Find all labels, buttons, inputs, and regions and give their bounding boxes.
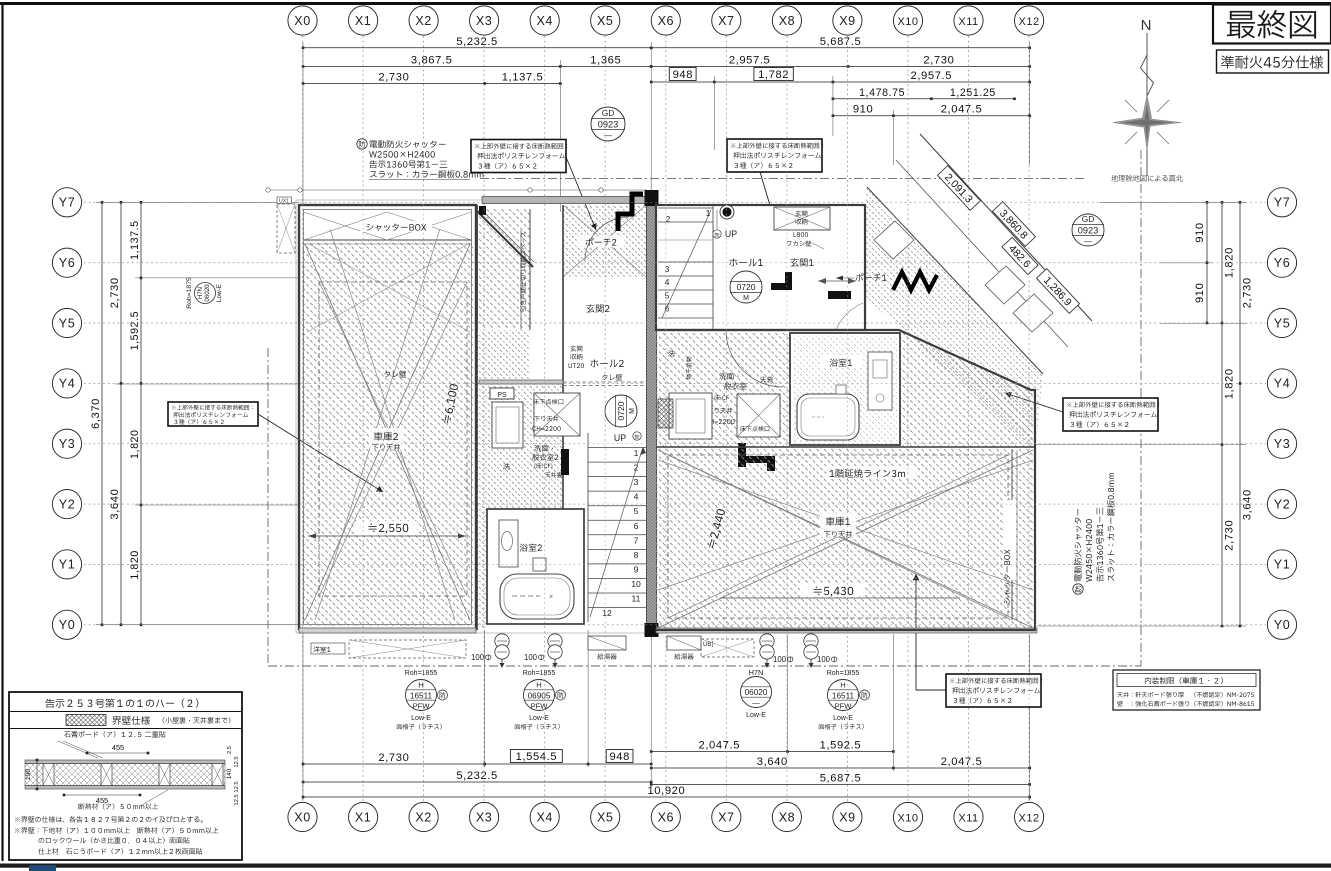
svg-text:M: M [743,295,749,302]
shower bath1 [836,385,846,394]
closet strip hatched [477,209,530,329]
svg-text:2,730: 2,730 [109,277,121,308]
section dim 455 bottom [64,794,140,796]
wet zone top wall [479,380,563,384]
left garage inner dim ≒2,550 [308,535,466,537]
svg-text:455: 455 [96,796,108,805]
diagonal steps squares [874,221,1053,332]
svg-text:2,730: 2,730 [1242,277,1254,308]
bathtub 1 [797,394,859,440]
insulation note box C left [168,402,258,426]
svg-text:2,047.5: 2,047.5 [941,756,983,768]
interior restriction table 内装制限 [1113,670,1260,710]
svg-text:948: 948 [609,751,629,763]
hall1 label [729,258,763,266]
left garage dim ≒6,100 rotated [442,383,460,424]
svg-text:X7: X7 [718,810,734,824]
svg-text:0923: 0923 [598,120,618,130]
vertical grid lines dashed [303,36,1030,801]
insulation note box A top-left [471,140,566,173]
svg-text:GD: GD [1082,214,1095,224]
svg-text:X0: X0 [294,810,310,824]
bottom dim row 2,730 / 1,554.5 / 948 [303,763,651,765]
page frame left border [1,2,3,861]
right dimension col 910/910 [1206,202,1208,323]
washer box with X right unit [737,394,780,437]
black bar hall2 side [561,449,569,475]
svg-text:X5: X5 [597,810,613,824]
top dimension row 3,867.5 / 1,365 [303,65,651,67]
svg-text:Y3: Y3 [59,437,75,451]
svg-text:Y2: Y2 [1274,497,1290,511]
svg-text:N: N [1141,17,1152,34]
svg-text:910: 910 [1194,283,1206,303]
bath1 counter [868,352,892,410]
stair landing edge [658,239,713,241]
Y grid bubbles right [1267,610,1296,639]
svg-text:1,820: 1,820 [1224,247,1236,278]
top dimension row 2,730 / 1,137.5 [303,83,560,85]
svg-text:H: H [418,680,423,689]
horizontal grid lines dashed [84,202,1266,625]
svg-text:X9: X9 [839,14,855,28]
svg-text:06020: 06020 [204,284,211,302]
svg-text:5: 5 [634,506,639,516]
svg-text:X2: X2 [415,14,431,28]
fire shutter note top-left [357,139,367,149]
svg-text:1,478.75: 1,478.75 [859,87,905,99]
svg-text:2,047.5: 2,047.5 [941,104,983,116]
fire shutter note right rotated [1073,473,1115,594]
left garage steep brace X [315,229,440,620]
svg-text:H7N: H7N [749,668,764,677]
left garage big X diagonals [305,244,470,620]
svg-text:2,730: 2,730 [378,72,409,84]
svg-text:2,730: 2,730 [378,752,409,764]
X grid bubbles top [288,6,317,35]
X grid bubbles bottom [288,802,317,831]
left garage labels [370,428,403,450]
svg-text:1,137.5: 1,137.5 [129,220,141,260]
svg-text:—: — [1084,237,1092,246]
right staircase treads [658,207,713,209]
svg-text:PS: PS [497,392,507,399]
washer box left unit [492,402,523,448]
svg-text:Y5: Y5 [59,316,75,330]
svg-text:3,867.5: 3,867.5 [411,54,453,66]
left unit 車庫2 hatched floor [302,241,473,626]
bottom-left blue square [29,865,56,871]
top dimension row 948 / 1,782 / 2,957.5 boxed [651,81,1029,83]
window bubble left rotated Roh=1875 [186,277,223,309]
svg-text:11: 11 [632,594,641,604]
stair diagonal [590,447,643,617]
entry1 label 玄関1 [790,258,813,266]
svg-text:10: 10 [631,579,641,589]
svg-text:3,640: 3,640 [757,756,788,768]
svg-text:×: × [549,594,553,601]
svg-text:X9: X9 [839,810,855,824]
svg-text:Y3: Y3 [1274,437,1290,451]
svg-text:6,370: 6,370 [90,398,102,429]
svg-text:16511: 16511 [832,691,855,700]
hall2 label ホール2 [590,359,623,367]
left wet zone hatched [477,382,563,509]
left dimension col 2,730 / 3,640 [120,202,122,625]
right garage inner dashed rect [668,455,1008,618]
PS box [490,388,514,399]
closet rotated label [520,232,526,311]
svg-text:Y6: Y6 [1274,256,1290,270]
bottom dim row 2,047.5 / 1,592.5 [651,751,893,753]
washbasin right unit [669,393,712,439]
bathtub 2 [500,574,574,619]
svg-text:Low-E: Low-E [411,715,431,722]
svg-text:0720: 0720 [616,401,626,420]
bottom dim row 3,640 / 2,047.5 [651,767,1029,769]
Y grid bubbles left [52,610,81,639]
title box 最終図 [1213,5,1331,44]
svg-text:1,820: 1,820 [129,429,141,459]
svg-text:UP: UP [614,433,626,443]
left unit outer wall [299,205,476,629]
section studs [43,764,54,786]
svg-text:1,554.5: 1,554.5 [516,751,558,763]
svg-text:9: 9 [634,564,639,574]
UX1 dashed box outside left [277,197,292,204]
black zigzag stair section cut [893,272,937,290]
svg-text:X1: X1 [355,14,371,28]
black L wall right of party wall top of garage [738,443,746,467]
right garage shallow brace X [658,460,1033,590]
svg-text:100: 100 [471,653,485,662]
closet strip walls [476,205,478,630]
svg-text:1,592.5: 1,592.5 [129,311,141,351]
right unit lower outline [656,330,1035,630]
drain circles 100φ pair 1 [495,634,509,648]
grid lines overlay [84,36,1266,801]
left garage inner dashed rect [319,282,467,596]
玄関収納 UT20 labels left unit [570,346,582,352]
bottom wall band right unit [656,628,1037,633]
detail box hatch swatch [66,715,106,726]
party wall black caps [645,190,659,206]
svg-text:X0: X0 [294,14,310,28]
svg-text:Y5: Y5 [1274,316,1290,330]
svg-text:Y0: Y0 [1274,618,1290,632]
right stair diagonal [662,210,711,318]
svg-text:X6: X6 [658,810,674,824]
svg-text:X2: X2 [415,810,431,824]
svg-text:X11: X11 [958,812,978,824]
svg-text:1: 1 [706,209,711,218]
svg-text:X3: X3 [476,810,492,824]
svg-text:X10: X10 [897,16,918,28]
svg-text:Roh=1855: Roh=1855 [523,670,556,677]
entry2 label 玄関2 [586,304,609,312]
shutter box strip right unit [1011,450,1013,620]
svg-text:6: 6 [634,521,639,531]
bath2 room [487,509,584,624]
svg-text:3,640: 3,640 [1242,489,1254,520]
section bubble GD0923 top [591,107,625,141]
notes text lines [15,816,203,822]
diagonal wing hatched area below [865,187,1043,452]
right garage X diagonals [658,450,1033,628]
UB dashed box bottom [701,639,754,657]
black step mark near porch2 [618,194,643,231]
water heater 給湯器 left [588,636,626,650]
porch canopy wall top [482,197,647,204]
svg-text:5,232.5: 5,232.5 [456,770,498,782]
svg-text:2,730: 2,730 [923,54,954,66]
svg-text:Roh=1855: Roh=1855 [405,670,438,677]
svg-text:12.5: 12.5 [234,781,240,792]
left unit interior wall hall/wet rooms [562,205,564,509]
svg-text:X4: X4 [536,14,552,28]
svg-text:X4: X4 [536,810,552,824]
svg-text:Y7: Y7 [59,196,75,210]
0720 level circle left unit (rotated) [605,395,637,427]
section bubble GD0923 right [1072,214,1104,246]
bottom dim row 5,687.5 [651,783,1029,785]
svg-text:140: 140 [226,768,233,779]
svg-text:Y1: Y1 [59,558,75,572]
svg-text:5,232.5: 5,232.5 [456,36,498,48]
洗面脱衣室2 labels [534,445,553,452]
svg-text:PFW: PFW [413,702,431,711]
svg-text:M: M [629,408,636,414]
svg-text:UP: UP [725,229,737,239]
svg-text:2,957.5: 2,957.5 [911,70,953,82]
porch1 label [856,273,887,281]
bath2 label [520,544,542,552]
section band [25,760,225,764]
right unit lower hatched polygon [656,333,1035,630]
svg-text:Roh=1855: Roh=1855 [827,670,860,677]
洋室1 label + dashed box bottom-left [311,643,345,654]
right dimension col 2,730/3,640 [1239,202,1241,626]
detail box row 界壁仕様 [112,716,150,725]
svg-text:X5: X5 [597,14,613,28]
bath2 vanity counter [499,520,518,567]
svg-text:1,820: 1,820 [129,550,141,580]
svg-text:X8: X8 [779,810,795,824]
svg-text:1,365: 1,365 [590,54,621,66]
玄関収納 L800 フカシ壁 labels [774,207,830,230]
washroom door arc [726,330,783,387]
svg-text:X1: X1 [355,810,371,824]
porch2 hatched area [563,205,646,277]
svg-text:Y2: Y2 [59,497,75,511]
svg-text:X3: X3 [476,14,492,28]
left staircase [588,443,646,622]
fire spread line dash-dot top [480,178,1085,180]
bathroom1 label [820,356,862,368]
top dimension row 1,478.75 / 1,251.25 [833,98,1015,100]
svg-text:Low-E: Low-E [529,715,549,722]
svg-text:10,920: 10,920 [647,785,685,797]
svg-text:2: 2 [666,215,671,224]
svg-text:948: 948 [673,69,693,81]
fire line label 1階延焼ライン3m [826,466,916,479]
eave outline around buildings thin [295,200,297,633]
site boundary dash-dot line right [1140,150,1142,666]
svg-text:910: 910 [853,104,873,116]
right garage dim ≒2,440 rotated [707,508,727,549]
bath2 mixer box [533,558,546,571]
svg-text:X8: X8 [779,14,795,28]
svg-text:Y0: Y0 [59,618,75,632]
right garage dim ≒5,430 [720,597,960,599]
svg-text:910: 910 [1194,222,1206,242]
svg-text:Low-E: Low-E [746,712,766,719]
svg-text:PFW: PFW [835,702,853,711]
svg-text:7: 7 [634,535,639,545]
svg-text:1: 1 [634,448,639,458]
entrance block outline right unit [656,205,865,330]
porch2 label [586,238,617,246]
svg-text:UX1: UX1 [279,199,289,205]
top dimension row 2,957.5 / 2,730 right [651,65,1029,67]
svg-text:2,047.5: 2,047.5 [699,740,741,752]
top dimension row 5,687.5 [651,47,1029,49]
diagonal boxed dims rotated 45 [938,166,981,211]
left garage shallow brace X [307,243,470,332]
right garage labels [820,513,856,537]
partition wall spec detail box [9,692,242,860]
water heater 給湯器 right [667,636,701,650]
svg-text:X12: X12 [1019,812,1040,824]
svg-text:12.5: 12.5 [234,794,240,805]
svg-text:Y4: Y4 [1274,377,1290,391]
upper setback line y=190 [268,189,647,191]
床下点検口 X-box left unit [534,393,580,436]
0720 level circle right unit [730,271,762,303]
washroom right labels [719,373,738,380]
left dimension col 1,137.5 1,592.5 1,820 1,820 [140,202,142,625]
right dimension col 1,820/1,820/2,730 [1221,202,1223,626]
wall section drawing [64,731,165,738]
断熱材 label [78,803,158,809]
entry2 door swing arc [585,217,629,260]
spec box 準耐火45分仕様 [1217,50,1329,73]
svg-text:100: 100 [773,655,787,664]
insulation note box B top-center [727,139,822,172]
svg-text:0720: 0720 [736,282,755,292]
garage top interior wall [656,446,1035,448]
svg-text:1,251.25: 1,251.25 [950,87,996,99]
svg-text:1,820: 1,820 [1224,368,1236,399]
svg-text:X7: X7 [718,14,734,28]
svg-text:—: — [752,699,760,708]
svg-text:100: 100 [817,655,831,664]
extension lines from dims to plan [302,42,304,205]
site boundary dash-dot line bottom [268,665,1141,667]
compass star [1113,95,1181,150]
bottom dim row 10,920 [303,796,1030,798]
svg-text:Y1: Y1 [1274,558,1290,572]
svg-text:X6: X6 [658,14,674,28]
entry1 sliding door double arrow [818,280,856,282]
svg-text:0923: 0923 [1078,226,1098,236]
svg-text:2,730: 2,730 [1224,520,1236,551]
svg-text:Y4: Y4 [59,377,75,391]
svg-text:GD: GD [602,108,615,118]
svg-text:1,592.5: 1,592.5 [820,740,862,752]
black circle mark top of right stair [720,205,734,219]
bottom black bar [0,864,1331,868]
svg-text:3: 3 [634,477,639,487]
top dimension row 5,232.5 [303,47,651,49]
svg-text:Roh=1875: Roh=1875 [186,277,193,309]
svg-text:4: 4 [634,492,639,502]
detail box title 告示253号 [46,699,199,708]
svg-text:Low-E: Low-E [216,284,223,302]
svg-text:2,957.5: 2,957.5 [729,54,771,66]
left dimension col 6,370 [101,202,103,625]
page frame top border [0,2,1331,5]
svg-text:Y7: Y7 [1274,196,1290,210]
svg-text:2.5: 2.5 [227,746,233,754]
svg-text:1,782: 1,782 [758,69,789,81]
svg-text:X11: X11 [958,16,978,28]
svg-text:Low-E: Low-E [833,715,853,722]
svg-text:12.5: 12.5 [234,756,240,767]
diagonal wing rails [920,134,1092,321]
insulation note box E bottom [946,674,1041,707]
svg-text:5,687.5: 5,687.5 [820,36,862,48]
black L mark entry1 [771,283,792,290]
bathroom1 room [790,333,900,445]
svg-text:X10: X10 [897,812,918,824]
svg-text:06905: 06905 [528,691,551,700]
bottom dim row 5,232.5 [303,781,651,783]
svg-text:5,687.5: 5,687.5 [820,772,862,784]
entry2 diagonal wall [477,211,533,267]
bottom wall band left unit [299,628,476,633]
svg-text:PFW: PFW [531,702,549,711]
svg-text:06020: 06020 [745,688,768,697]
shutter box strip left unit [304,239,472,241]
svg-text:12: 12 [602,608,612,618]
site boundary dash-dot line left [267,348,269,666]
svg-text:H: H [840,680,845,689]
black bar porch1 [828,291,851,299]
svg-text:1,137.5: 1,137.5 [502,72,544,84]
svg-text:X12: X12 [1019,16,1040,28]
party wall double gray wall [647,196,657,632]
top dimension row 910 / 2,047.5 [833,115,1030,117]
section dim 190 left [36,760,38,789]
insulation note box D right [1063,398,1158,431]
svg-text:H: H [536,680,541,689]
section dim 455 top [87,752,148,754]
dense hatch box next to party wall [658,399,673,428]
svg-text:8: 8 [634,550,639,560]
svg-text:190: 190 [25,769,32,781]
svg-text:16511: 16511 [410,691,433,700]
svg-text:Y6: Y6 [59,256,75,270]
svg-text:455: 455 [112,743,124,752]
svg-text:100: 100 [524,653,538,662]
